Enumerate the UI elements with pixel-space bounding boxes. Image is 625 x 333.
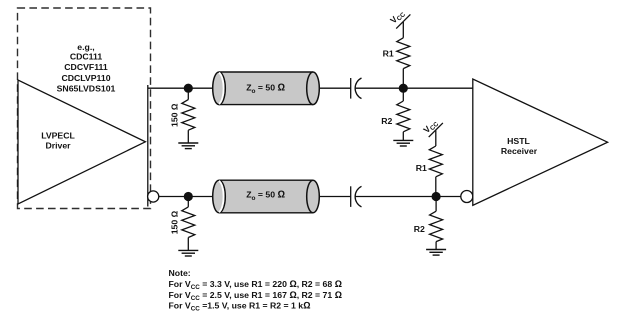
capacitor (top channel, AC coupling) [351,78,362,99]
svg-text:Receiver: Receiver [501,146,538,156]
transmission line Z0 = 50 ohm (bottom channel) [213,180,320,213]
ground (bottom R2) [426,250,446,256]
resistor 150 ohm (top channel) [170,88,195,143]
capacitor (bottom channel, AC coupling) [351,186,362,207]
HSTL receiver triangle [473,79,608,205]
svg-text:R2: R2 [414,224,425,234]
svg-text:For VCC =1.5 V, use R1 = R2 =: For VCC =1.5 V, use R1 = R2 = 1 kΩ [169,301,311,313]
resistor R2 (bottom channel) [414,197,443,250]
wire: driver output vertical stem [147,85,149,207]
ground (bottom 150 ohm) [178,250,198,256]
svg-text:VCC: VCC [421,117,440,136]
wire: top transmission line to capacitor [319,87,350,89]
receiver input bubble (bottom) [461,191,473,203]
resistor R1 (bottom channel) [416,146,443,197]
svg-text:LVPECL: LVPECL [41,131,75,141]
svg-text:SN65LVDS101: SN65LVDS101 [57,84,116,94]
svg-text:e.g.,: e.g., [77,42,94,52]
wire: top channel from driver to transmission line [148,87,213,89]
node: bottom R1/R2 junction [432,192,441,201]
svg-text:CDC111: CDC111 [70,52,103,62]
node: top R1/R2 junction [399,84,408,93]
resistor 150 ohm (bottom channel) [170,197,195,251]
LVPECL driver triangle [18,80,145,204]
note text block [169,268,343,312]
wire: top capacitor to receiver [355,87,472,89]
svg-text:CDCVF111: CDCVF111 [64,62,108,72]
svg-text:HSTL: HSTL [507,136,530,146]
svg-text:Note:: Note: [169,268,191,278]
svg-text:CDCLVP110: CDCLVP110 [61,73,110,83]
svg-text:Driver: Driver [45,140,71,150]
svg-text:R1: R1 [416,163,427,173]
svg-text:150 Ω: 150 Ω [170,103,180,127]
ground (top 150 ohm) [178,143,198,149]
node: top 150 ohm junction [184,84,193,93]
svg-text:VCC: VCC [388,7,407,26]
svg-text:R1: R1 [383,49,394,59]
wire: bottom transmission line to capacitor [319,196,350,198]
driver inverted output bubble [148,191,159,202]
svg-text:R2: R2 [381,116,392,126]
Vcc supply (top channel) [388,7,410,37]
resistor R2 (top channel) [381,88,410,140]
wire: bottom capacitor to receiver bubble [355,196,461,198]
wire: bottom channel from bubble to transmission line [159,196,213,198]
ground (top R2) [393,140,413,146]
transmission line Z0 = 50 ohm (top channel) [213,72,320,105]
Vcc supply (bottom channel) [421,117,443,146]
e.g. device list text [57,42,116,94]
node: bottom 150 ohm junction [184,192,193,201]
svg-text:150 Ω: 150 Ω [170,210,180,234]
resistor R1 (top channel) [383,38,410,88]
dashed enclosure box around LVPECL driver [18,8,151,209]
